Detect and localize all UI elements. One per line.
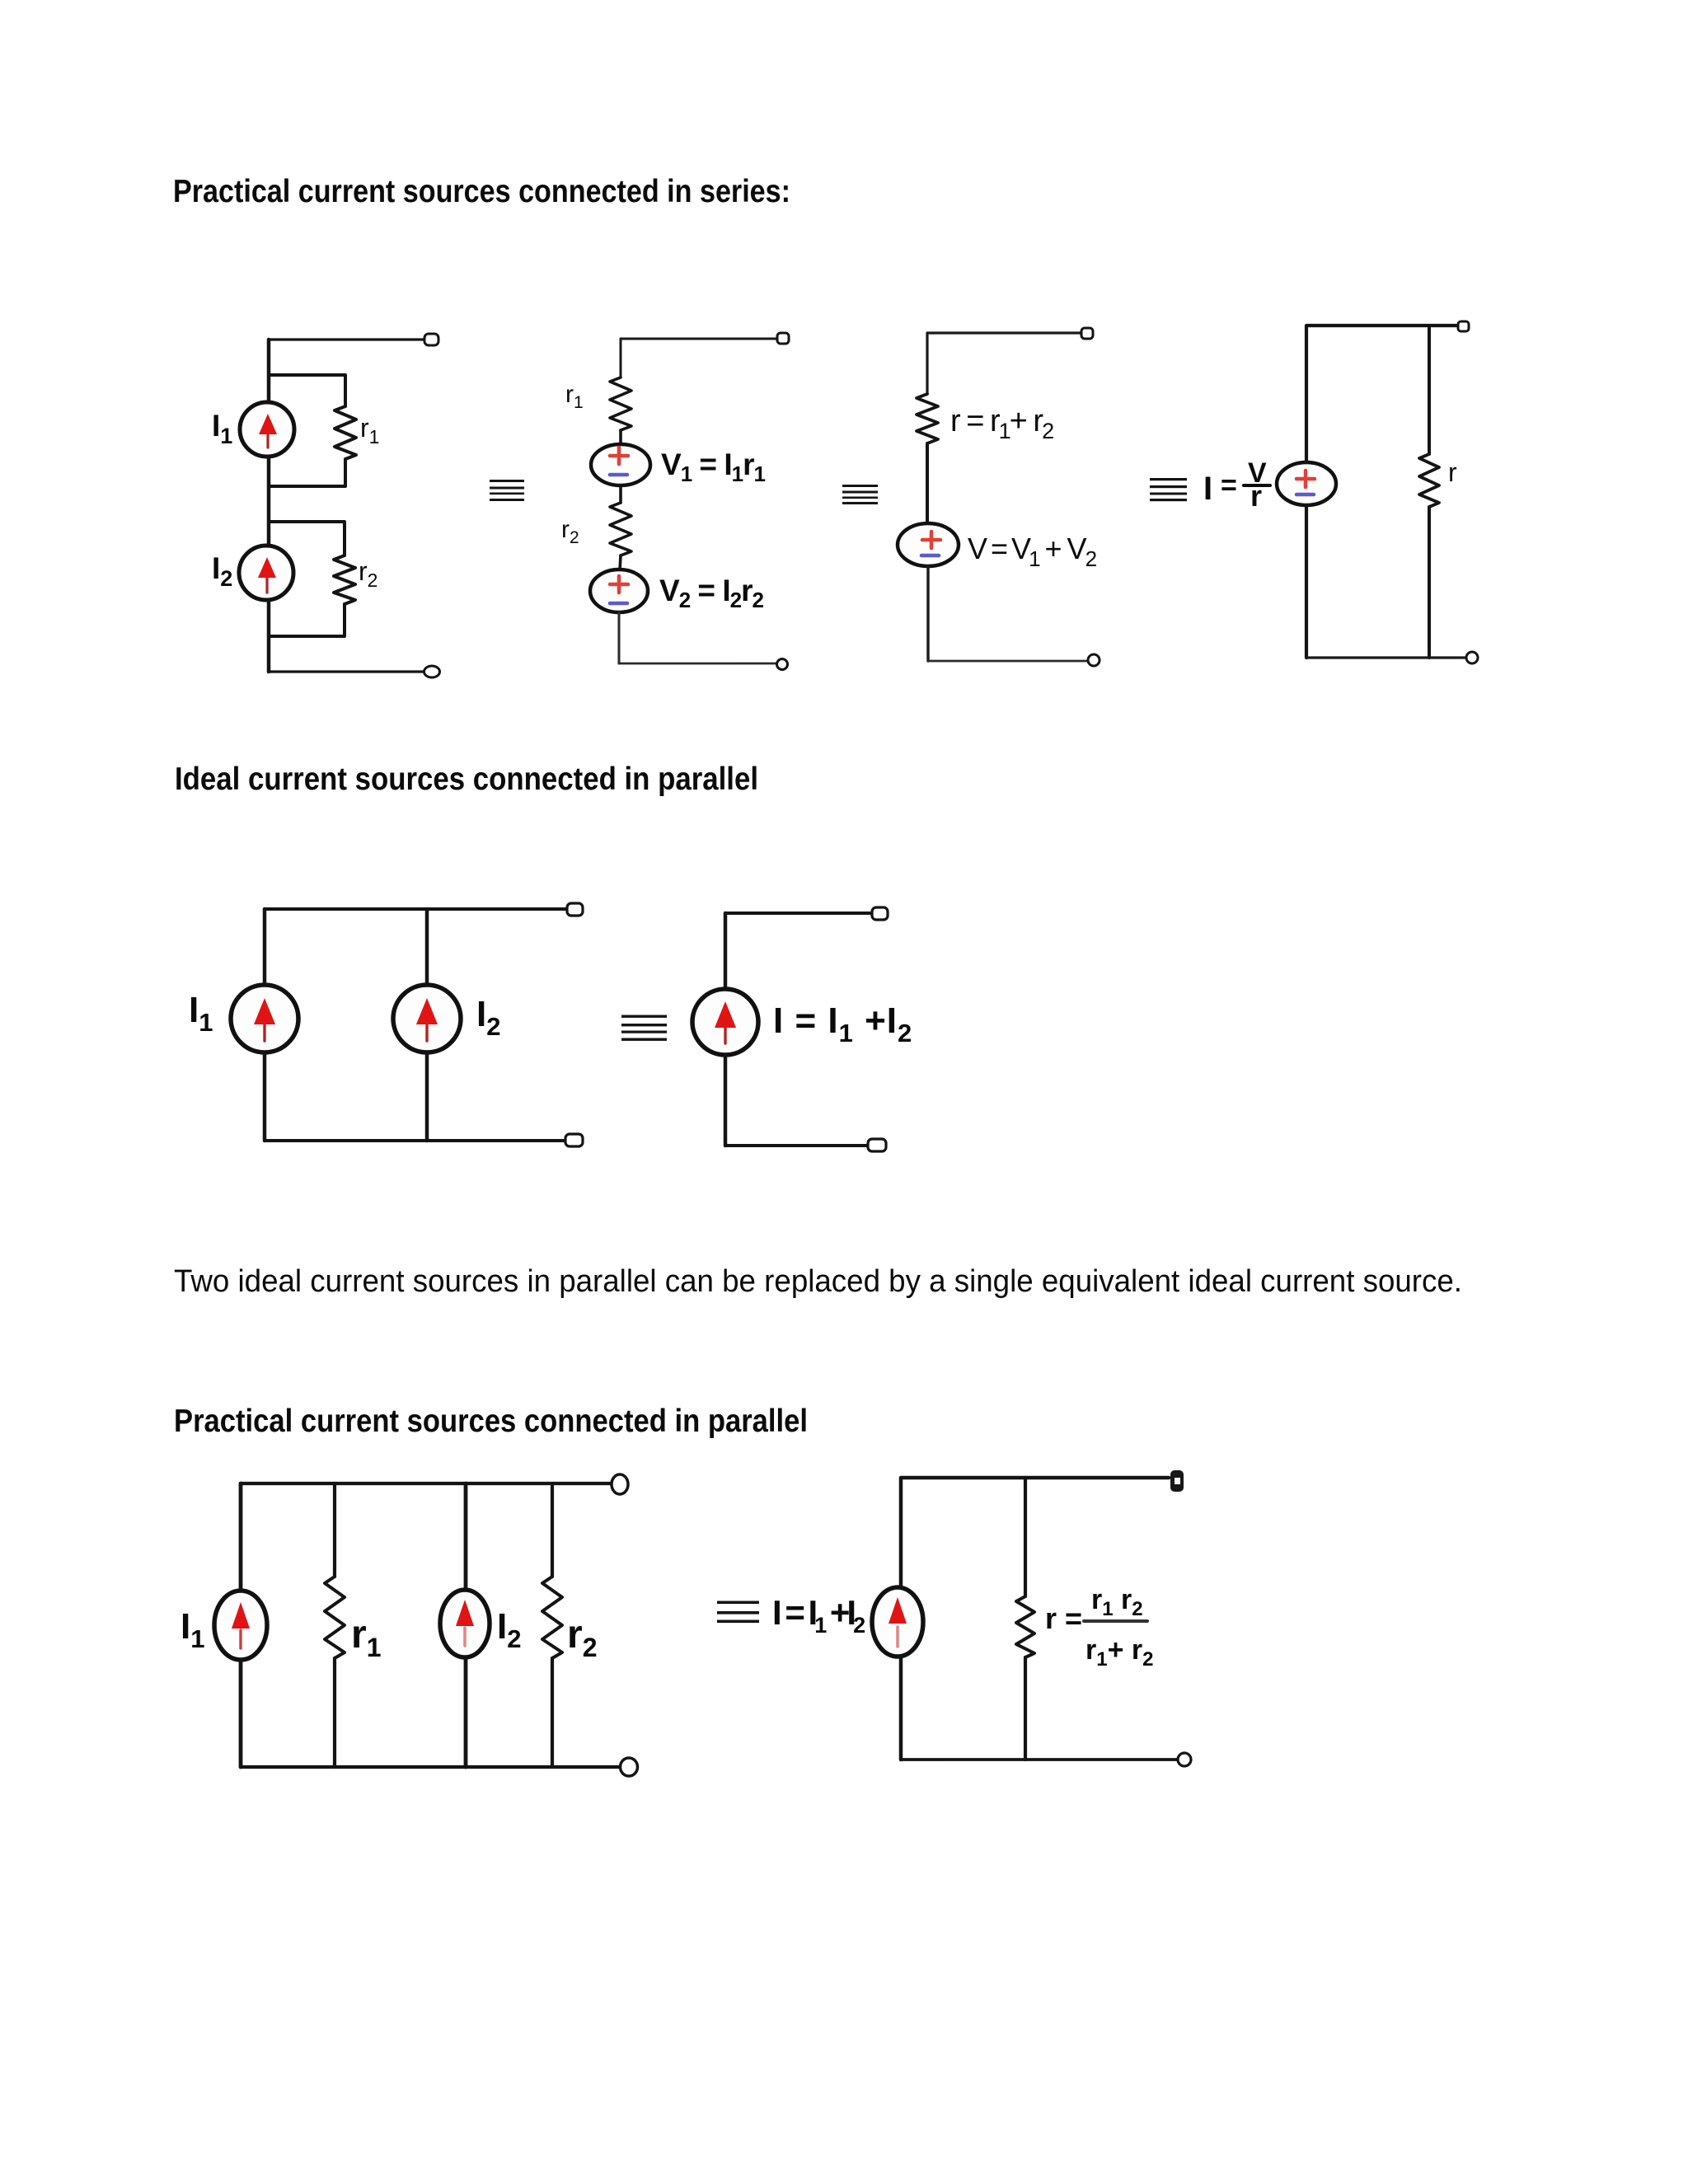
terminal (circuit A bottom) bbox=[424, 666, 440, 677]
wire (circuit B bottom) bbox=[619, 663, 776, 665]
svg-text:Practical current sources conn: Practical current sources connected in s… bbox=[173, 174, 790, 209]
wire (V2 to bottom, circuit B) bbox=[618, 612, 621, 663]
svg-text:I = I1 +I2: I = I1 +I2 bbox=[773, 1001, 912, 1047]
wire (circuit H left rail lower) bbox=[899, 1657, 903, 1760]
svg-text:r1: r1 bbox=[360, 413, 379, 448]
equivalence symbol 4 bbox=[621, 1015, 667, 1041]
voltage source V (circuit D) bbox=[1277, 462, 1336, 505]
resistor r1 (circuit A) bbox=[335, 406, 356, 459]
resistor r2 (circuit B) bbox=[610, 503, 631, 555]
resistor r2 (circuit A) bbox=[334, 555, 355, 604]
wire (rail of r2, circuit G upper) bbox=[551, 1483, 554, 1577]
current source I2 bbox=[239, 546, 293, 600]
current source I1 bbox=[240, 402, 294, 457]
svg-text:I1: I1 bbox=[181, 1606, 204, 1653]
arrow of I2 (circuit G) bbox=[456, 1600, 474, 1646]
wire (rail of r, circuit H lower) bbox=[1024, 1657, 1027, 1760]
minus sign of V2 bbox=[610, 602, 627, 606]
wire (circuit F rail upper) bbox=[724, 913, 728, 989]
terminal (circuit C bottom) bbox=[1088, 654, 1100, 666]
arrow of I2 (circuit E) bbox=[416, 998, 438, 1041]
svg-text:I2: I2 bbox=[212, 551, 232, 591]
wire (V to bottom, circuit C) bbox=[926, 566, 929, 661]
arrow of I1 (circuit G) bbox=[232, 1602, 250, 1648]
wire (circuit D left rail) bbox=[1306, 326, 1459, 462]
current source I2 (circuit E) bbox=[393, 985, 461, 1052]
wire (rail of I2, circuit G upper) bbox=[464, 1483, 468, 1591]
svg-text:r = r1+ r2: r = r1+ r2 bbox=[950, 404, 1053, 443]
wire (loop 1 bottom) bbox=[269, 459, 345, 486]
plus sign of V2 bbox=[610, 576, 628, 593]
wire (circuit G bottom) bbox=[241, 1765, 621, 1769]
terminal (circuit G bottom) bbox=[621, 1758, 638, 1776]
equivalence symbol 5 bbox=[717, 1601, 759, 1624]
arrow of I2 bbox=[258, 557, 276, 593]
arrow of I1 (circuit E) bbox=[254, 998, 275, 1041]
wire (rail of I1, circuit G lower) bbox=[239, 1660, 243, 1767]
wire (loop 1 top) bbox=[269, 375, 345, 406]
svg-text:r2: r2 bbox=[561, 516, 579, 547]
equivalence symbol 2 bbox=[842, 485, 878, 504]
wire (rail of r, circuit H upper) bbox=[1024, 1478, 1027, 1596]
terminal (circuit B top) bbox=[777, 333, 789, 344]
svg-text:r: r bbox=[1448, 457, 1457, 487]
wire (rail of r1, circuit G lower) bbox=[333, 1658, 336, 1767]
wire (loop 2 bottom) bbox=[269, 604, 345, 636]
arrow of I1 bbox=[259, 414, 277, 448]
svg-text:r: r bbox=[1250, 479, 1262, 513]
wire (rail of r2, circuit G lower) bbox=[551, 1658, 554, 1767]
wire (circuit D right rail upper) bbox=[1428, 326, 1431, 454]
resistor r (circuit H) bbox=[1016, 1596, 1034, 1657]
svg-text:V1 = I1r1: V1 = I1r1 bbox=[661, 448, 765, 486]
current source I1 (circuit E) bbox=[231, 985, 298, 1052]
current source I (circuit F) bbox=[692, 989, 758, 1055]
minus sign of V bbox=[921, 554, 939, 558]
wire (loop 2 top) bbox=[269, 522, 345, 555]
wire (circuit A top) bbox=[269, 340, 425, 341]
wire (circuit A left rail lower) bbox=[267, 600, 271, 672]
label I = V/r bbox=[1203, 457, 1270, 513]
wire (circuit C bottom) bbox=[928, 660, 1087, 663]
terminal (circuit E bottom) bbox=[565, 1134, 583, 1146]
svg-text:r1 r2: r1 r2 bbox=[1091, 1584, 1143, 1620]
svg-text:I = I1 +I2: I = I1 +I2 bbox=[772, 1593, 865, 1638]
svg-text:I2: I2 bbox=[497, 1606, 521, 1653]
wire (circuit F bottom) bbox=[725, 1144, 868, 1147]
equivalence symbol 1 bbox=[490, 480, 524, 501]
label r = r1r2/(r1+r2) bbox=[1045, 1584, 1154, 1671]
resistor r (circuit D) bbox=[1419, 454, 1439, 507]
wire (r to V, circuit C) bbox=[926, 443, 929, 524]
wire (circuit A bottom) bbox=[269, 670, 424, 673]
wire (circuit A left rail upper) bbox=[267, 340, 271, 403]
arrow of I (circuit F) bbox=[715, 1001, 736, 1043]
wire (circuit E top) bbox=[265, 907, 567, 911]
wire (rail of I1, upper) bbox=[263, 909, 267, 986]
terminal (circuit E top) bbox=[567, 903, 583, 916]
wire (circuit D right rail lower) bbox=[1428, 507, 1431, 658]
wire (circuit G top) bbox=[241, 1482, 612, 1485]
svg-text:r1: r1 bbox=[351, 1613, 381, 1662]
wire (circuit C top) bbox=[927, 333, 1081, 394]
svg-text:r1+ r2: r1+ r2 bbox=[1085, 1634, 1154, 1671]
svg-text:I2: I2 bbox=[476, 994, 500, 1041]
terminal (circuit D bottom) bbox=[1466, 652, 1478, 663]
svg-text:I: I bbox=[1203, 471, 1212, 507]
svg-text:=: = bbox=[1221, 470, 1237, 501]
equivalence symbol 3 bbox=[1150, 478, 1187, 501]
terminal (circuit F top) bbox=[872, 907, 888, 920]
wire (rail of I2, lower) bbox=[425, 1052, 429, 1141]
wire (rail of I1, circuit G upper) bbox=[239, 1483, 243, 1591]
wire (V1 to r2) bbox=[619, 485, 622, 503]
current source I1 (circuit G) bbox=[214, 1591, 267, 1660]
svg-text:V = V1 + V2: V = V1 + V2 bbox=[968, 532, 1097, 571]
terminal (circuit H top) bbox=[1170, 1470, 1184, 1492]
plus sign of V (circuit D) bbox=[1296, 471, 1315, 487]
wire (circuit B top) bbox=[621, 339, 778, 377]
minus sign of V1 bbox=[610, 473, 627, 477]
svg-text:Ideal current sources connecte: Ideal current sources connected in paral… bbox=[175, 762, 758, 797]
svg-text:V2 = I2r2: V2 = I2r2 bbox=[659, 574, 763, 612]
wire (rail of I2, upper) bbox=[425, 909, 429, 986]
svg-text:r2: r2 bbox=[359, 556, 377, 591]
svg-text:I1: I1 bbox=[212, 409, 232, 448]
terminal (circuit F bottom) bbox=[868, 1139, 886, 1151]
current source I2 (circuit G) bbox=[440, 1590, 490, 1657]
arrow of I (circuit H) bbox=[889, 1597, 907, 1647]
current source I (circuit H) bbox=[872, 1587, 923, 1657]
resistor r1 (circuit B) bbox=[610, 377, 631, 430]
wire (circuit E bottom) bbox=[265, 1139, 565, 1142]
wire (rail of I2, circuit G lower) bbox=[464, 1657, 468, 1767]
wire (r2 to V2) bbox=[620, 555, 621, 570]
terminal (circuit D top) bbox=[1458, 321, 1469, 331]
wire (circuit F rail lower) bbox=[724, 1055, 728, 1146]
terminal (circuit A top) bbox=[424, 334, 438, 345]
terminal (circuit G top) bbox=[612, 1474, 628, 1494]
wire (rail of I1, lower) bbox=[263, 1052, 267, 1141]
terminal (circuit B bottom) bbox=[777, 659, 788, 670]
resistor r1 (circuit G) bbox=[325, 1577, 345, 1658]
svg-text:r2: r2 bbox=[567, 1613, 597, 1662]
resistor r2 (circuit G) bbox=[542, 1577, 562, 1658]
wire (rail of r1, circuit G upper) bbox=[333, 1483, 336, 1577]
wire (circuit D bottom) bbox=[1306, 656, 1465, 658]
voltage source V2 bbox=[590, 569, 648, 612]
wire (r1 to V1) bbox=[619, 430, 622, 445]
plus sign of V bbox=[922, 532, 940, 548]
svg-text:r1: r1 bbox=[565, 381, 584, 412]
svg-text:r =: r = bbox=[1045, 1601, 1082, 1635]
svg-text:Two ideal current sources in p: Two ideal current sources in parallel ca… bbox=[174, 1264, 1462, 1299]
voltage source V (circuit C) bbox=[898, 523, 959, 566]
plus sign of V1 bbox=[610, 448, 628, 464]
wire (circuit F top) bbox=[725, 912, 872, 915]
terminal (circuit C top) bbox=[1081, 328, 1093, 339]
svg-text:Practical current sources conn: Practical current sources connected in p… bbox=[174, 1404, 808, 1439]
voltage source V1 bbox=[591, 444, 650, 485]
wire (circuit D left rail lower) bbox=[1305, 505, 1308, 658]
terminal (circuit H bottom) bbox=[1178, 1753, 1191, 1766]
wire (circuit A left rail middle) bbox=[267, 457, 271, 546]
wire (circuit H bottom) bbox=[901, 1758, 1177, 1761]
resistor r (circuit C) bbox=[917, 394, 938, 443]
svg-text:I1: I1 bbox=[189, 990, 213, 1037]
minus sign of V (circuit D) bbox=[1296, 493, 1314, 497]
wire (circuit H left rail upper) bbox=[901, 1478, 1169, 1587]
